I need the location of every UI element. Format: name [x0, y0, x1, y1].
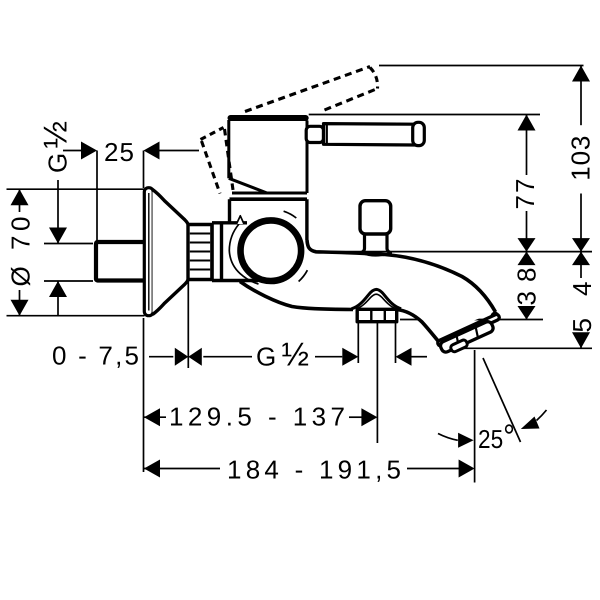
arrow 38 bottom — [518, 306, 536, 320]
svg-text:G ½: G ½ — [256, 336, 309, 373]
leader curve right of 25deg — [537, 410, 547, 421]
wall ext line top (O70 top) — [7, 188, 145, 190]
25deg inclined line — [483, 358, 521, 442]
upper housing — [230, 199, 307, 240]
dim row 129.5-137 — [144, 416, 166, 418]
escutcheon back plate — [144, 188, 153, 316]
ext line aerator vertical — [474, 350, 476, 483]
ext line 25 left — [96, 151, 98, 244]
dashed lever raised bottom — [325, 89, 378, 111]
nipple G1/2 — [96, 242, 146, 281]
lever end cap — [413, 122, 425, 145]
svg-text:G ½: G ½ — [37, 121, 74, 173]
dashed lever raised cap — [370, 68, 378, 89]
ext line top of spout (77/38/103/54 datum) — [308, 251, 592, 253]
ext line aerator bottom (54 bottom) — [450, 347, 592, 349]
lever neck — [306, 126, 323, 142]
dim line O70 — [19, 189, 21, 212]
ext line shower centre — [376, 312, 378, 443]
svg-text:129.5 - 137: 129.5 - 137 — [169, 402, 345, 432]
hex arcs around circle — [229, 211, 307, 284]
dashed lever left line1 — [225, 129, 234, 194]
diverter knob — [360, 201, 391, 234]
arrow 129.5 left — [144, 408, 160, 426]
ext lines shower nut — [357, 322, 359, 363]
wall ext line bottom (O70 bottom) — [7, 315, 145, 317]
dashed lever left line2 — [202, 141, 221, 194]
dashed lever raised top — [245, 67, 370, 112]
svg-text:103: 103 — [566, 136, 596, 181]
ext line spout bottom (38 bottom) — [400, 319, 543, 321]
handle base top bar — [231, 115, 306, 121]
dim line 38 — [526, 252, 528, 265]
shower nut — [357, 309, 397, 321]
dim row 184-191.5 — [144, 468, 220, 470]
ext line top of handle (77 top) — [309, 114, 540, 116]
arrow G1/2 bottom left — [342, 348, 358, 366]
bowtie 77/38 — [518, 238, 536, 265]
arrow 54 bottom — [572, 332, 590, 348]
dashed lever left cap — [201, 128, 224, 140]
dim line G1/2 left — [57, 180, 59, 244]
arrowheads — [11, 66, 591, 478]
knurl lines — [190, 234, 210, 270]
dim row 0-7.5 / G1/2 — [149, 356, 173, 358]
arrow 25deg at vertical — [458, 433, 474, 448]
svg-text:0 - 7,5: 0 - 7,5 — [52, 341, 139, 371]
arrow 184 left — [144, 460, 160, 478]
arrow 25 right — [144, 142, 160, 160]
shower nut ribs — [371, 310, 385, 321]
white fill silhouette — [212, 116, 496, 336]
connector band — [212, 223, 258, 281]
lever grip — [324, 124, 416, 145]
arrow G1/2 up — [49, 281, 67, 297]
arrow O70 bottom — [11, 300, 29, 316]
ext line top of dashed handle (103 top) — [379, 65, 584, 67]
dim line 77 — [526, 115, 528, 176]
aerator end face — [450, 339, 469, 353]
dim line 54 — [580, 252, 582, 278]
arrow 25 left — [81, 142, 97, 160]
ext line escutcheon front — [187, 280, 189, 369]
dim line 25 — [63, 150, 82, 152]
spout bottom outline right — [397, 310, 441, 344]
diverter dome — [352, 289, 402, 308]
dim line 103 — [580, 66, 582, 126]
arrow 25deg at incline — [521, 417, 540, 430]
dimension texts — [6, 121, 598, 485]
arrow 129.5 right — [361, 408, 377, 426]
plate inner line — [148, 193, 150, 311]
spout bottom outline left — [240, 282, 353, 310]
arrow 103 top — [572, 66, 590, 82]
knurled ring — [188, 225, 212, 280]
arrow 184 right — [459, 460, 475, 478]
ext line wall plane — [143, 318, 145, 472]
cartridge circle — [240, 220, 301, 281]
svg-text:25°: 25° — [478, 418, 515, 456]
limiter tab triangle — [237, 216, 245, 224]
bowtie 103/54 — [572, 238, 590, 265]
diverter stem — [360, 234, 393, 253]
spout tip bulb — [492, 313, 499, 320]
handle base block — [229, 120, 307, 193]
spout top outline — [307, 240, 496, 312]
aerator rim — [437, 314, 500, 347]
diverter dome inner — [358, 294, 396, 308]
tick nipple top — [44, 243, 93, 245]
aerator cap — [439, 320, 494, 353]
lever grip left flange — [326, 124, 328, 145]
ext line 25 right — [143, 151, 145, 189]
escutcheon trumpet — [153, 190, 189, 315]
tick nipple bottom — [44, 280, 93, 282]
bowtie 0-7.5 — [175, 348, 202, 366]
arrow 77 top — [518, 115, 536, 131]
diverter stem collar — [361, 253, 391, 256]
svg-text:184 - 191,5: 184 - 191,5 — [227, 455, 401, 485]
arrow G1/2 bottom right — [396, 348, 412, 366]
arrow O70 top — [11, 189, 29, 205]
svg-text:25: 25 — [104, 137, 134, 167]
arrow G1/2 down — [49, 228, 67, 244]
leader curve left of 25deg — [438, 434, 458, 441]
housing top bold — [230, 197, 307, 201]
